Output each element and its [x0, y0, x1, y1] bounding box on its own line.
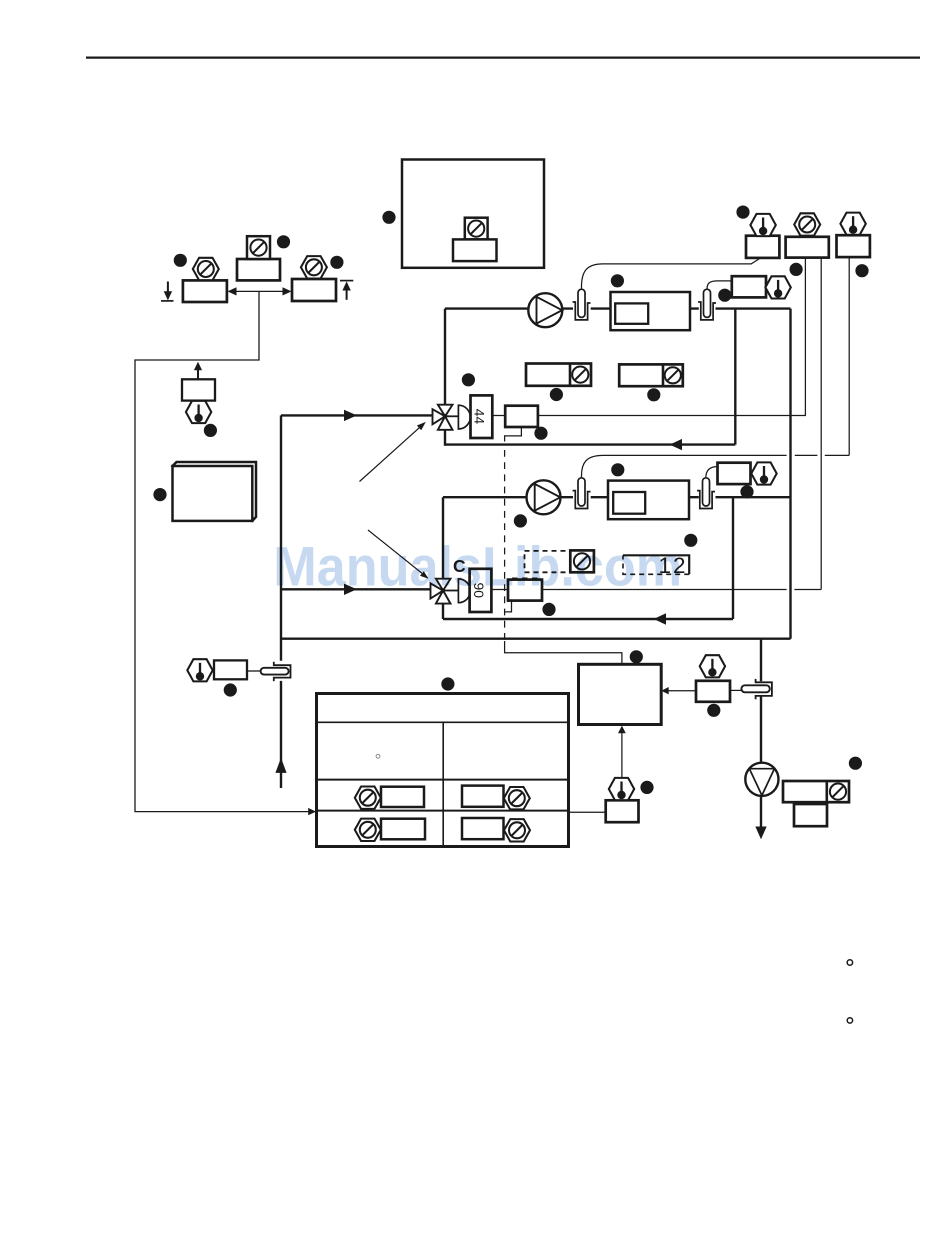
degree mark right 1: [847, 960, 852, 965]
gauge unit 1 loop 2 (dashed option): [525, 551, 571, 572]
annotation arrow to valve 2: [368, 530, 424, 575]
limit control box loop 2: [718, 463, 751, 484]
valve 2 actuator: [458, 579, 470, 603]
limit control box loop 1: [732, 276, 766, 297]
valve 1 actuator: [458, 405, 470, 429]
panel gauge 2 top right: [786, 237, 829, 258]
gauge unit 1 loop 1: [526, 364, 591, 386]
unit: middle zone box: [237, 259, 280, 280]
riser sensor box: [214, 660, 247, 679]
gauge unit 2 loop 1: [619, 364, 683, 386]
boiler cell row4 left: [355, 819, 381, 841]
callout dot: [855, 264, 868, 277]
control bus dashed line: [504, 450, 506, 641]
thermowell loop 1 outlet: [698, 289, 716, 320]
arrow into boiler table: [308, 808, 316, 815]
capillary from well 2 to limit box: [707, 281, 732, 289]
relay box loop 2: [508, 580, 542, 601]
pipe: loop 2 inner vertical: [732, 497, 734, 619]
pipe: supply line to mixing valve 2: [281, 588, 432, 590]
capillary from well 1 to aquastat: [581, 258, 760, 289]
svg-text:ManualsLib.com: ManualsLib.com: [273, 535, 682, 597]
flow arrow up on riser: [275, 758, 286, 773]
gauge hexagon on left box: [193, 258, 219, 280]
callout dot: [277, 235, 290, 248]
callout dot: [550, 388, 563, 401]
callout dot: [204, 424, 217, 437]
callout dot: [630, 650, 643, 663]
pump P2: [527, 480, 561, 514]
pipe: loop 2 supply top line: [443, 496, 791, 498]
unit: right zone valve box: [292, 279, 336, 301]
callout dot: [611, 463, 624, 476]
pipe: loop 1 bottom return: [445, 443, 735, 445]
degree mark right 2: [847, 1018, 852, 1023]
callout dot: [849, 757, 862, 770]
wire controller to relay 2: [491, 589, 508, 591]
heat exchanger 2 box: [608, 481, 689, 520]
pipe: main boiler riser: [789, 309, 791, 639]
3-way mixing valve 2: [431, 579, 459, 604]
wire sensor box to DHW probe: [730, 689, 741, 691]
thermowell loop 1 supply: [573, 289, 591, 320]
capillary from loop 2 well to panel aquastat: [581, 455, 849, 477]
header rule: [86, 56, 920, 58]
gauge hexagon on right box: [301, 256, 327, 278]
heat exchanger 1 box: [611, 292, 691, 330]
central control box: [579, 664, 662, 724]
callout dot: [684, 534, 697, 547]
callout dot: [740, 485, 753, 498]
aquastat box inside tank box: [453, 239, 497, 261]
callout dot: [736, 206, 749, 219]
gauge square on middle box: [247, 236, 270, 259]
thermometer hexagon on DHW sensor box: [700, 655, 725, 677]
callout dot: [330, 256, 343, 269]
callout dot: [462, 373, 475, 386]
callout dot: [647, 388, 660, 401]
control module 3D box: [173, 462, 257, 521]
callout dot: [542, 603, 555, 616]
pipe: loop 1 left vertical through valve: [444, 309, 446, 446]
boiler table: [317, 694, 569, 847]
panel aquastat 1 top right: [746, 236, 779, 258]
thermometer hexagon beside loop 2 limit box: [751, 462, 776, 484]
aquastat unit bottom right: [783, 781, 849, 802]
callout dot: [534, 427, 547, 440]
callout dot: [153, 488, 166, 501]
wire: supply/return header arrows to piping: [135, 291, 309, 811]
pipe: return header: [281, 638, 791, 640]
wire aquastat up to control box: [621, 732, 623, 779]
arrow up (supply direction): [346, 289, 348, 300]
pipe: supply riser: [280, 415, 282, 788]
degree mark in table: [376, 754, 380, 758]
wire relay 2 to panel sensor line: [542, 589, 821, 591]
pipe: supply line to mixing valve 1: [281, 414, 432, 416]
callout dot: [790, 263, 803, 276]
callout dot: [707, 704, 720, 717]
DHW immersion probe: [741, 685, 769, 692]
wire DHW sensor to control box: [668, 690, 696, 692]
thermometer hexagon beside limit box: [765, 276, 790, 298]
boiler cell row4 right: [462, 818, 504, 839]
callout dot: [718, 289, 731, 302]
capillary from loop 2 outlet well to limit box: [706, 467, 718, 478]
unit: left zone valve box: [183, 280, 227, 302]
thermowell loop 2 outlet: [697, 478, 715, 509]
pipe: DHW drop line: [760, 639, 762, 828]
boiler cell row3 right: [462, 786, 504, 807]
DHW sensor box: [696, 681, 730, 702]
callout dot: [514, 514, 527, 527]
callout dot: [174, 254, 187, 267]
pump P1: [528, 293, 562, 327]
box below aquastat: [794, 804, 827, 826]
wire relay 1 drop to control bus: [505, 427, 522, 442]
callout dot: [611, 274, 624, 287]
wire relay 2 drop to control bus: [505, 601, 512, 612]
thermowell loop 2 supply: [573, 478, 591, 509]
arrow down (return direction): [167, 282, 169, 294]
callout dot: [382, 211, 395, 224]
riser temperature sensor hexagon: [187, 659, 212, 681]
valve 1 controller box 44: [471, 395, 493, 438]
gauge square inside tank box: [465, 218, 488, 240]
thermometer hexagon on DHW aquastat: [609, 778, 634, 800]
pipe: loop 1 inner vertical: [734, 309, 736, 445]
DHW aquastat box under control box: [606, 800, 639, 822]
dashed wire stub: [512, 577, 541, 579]
callout dot: [640, 781, 653, 794]
relay box loop 1: [505, 406, 538, 427]
pipe: loop 1 supply top line: [445, 307, 791, 309]
wire table to DHW aquastat: [569, 811, 606, 813]
wire relay 1 to panel sensor line: [538, 258, 806, 416]
pipe: loop 2 bottom return: [443, 618, 733, 620]
expansion/DHW tank box: [402, 160, 544, 268]
outdoor sensor box: [182, 379, 215, 400]
valve 2 controller box 90: [470, 569, 492, 612]
thermometer hexagon below sensor box: [186, 401, 211, 423]
wire: double-headed arrow between low-temp units: [234, 290, 285, 292]
callout dot: [441, 677, 454, 690]
riser immersion probe: [261, 668, 289, 675]
svg-text:44: 44: [472, 409, 488, 425]
pipe: loop 2 left vertical through valve: [442, 497, 444, 619]
callout dot: [224, 683, 237, 696]
pump P3 (DHW): [745, 763, 778, 796]
outdoor sensor arrow: [197, 369, 199, 380]
annotation arrow to valve 1: [360, 426, 422, 481]
wire controller to relay 1: [492, 415, 505, 417]
3-way mixing valve 1: [433, 405, 459, 430]
panel aquastat 3 top right: [837, 235, 870, 257]
boiler cell row3 left: [355, 787, 381, 809]
control bus elbow into control box: [505, 641, 622, 664]
wire sensor box to probe: [247, 670, 261, 672]
gauge unit 2 loop 2 (dashed option) 12: [623, 555, 689, 574]
